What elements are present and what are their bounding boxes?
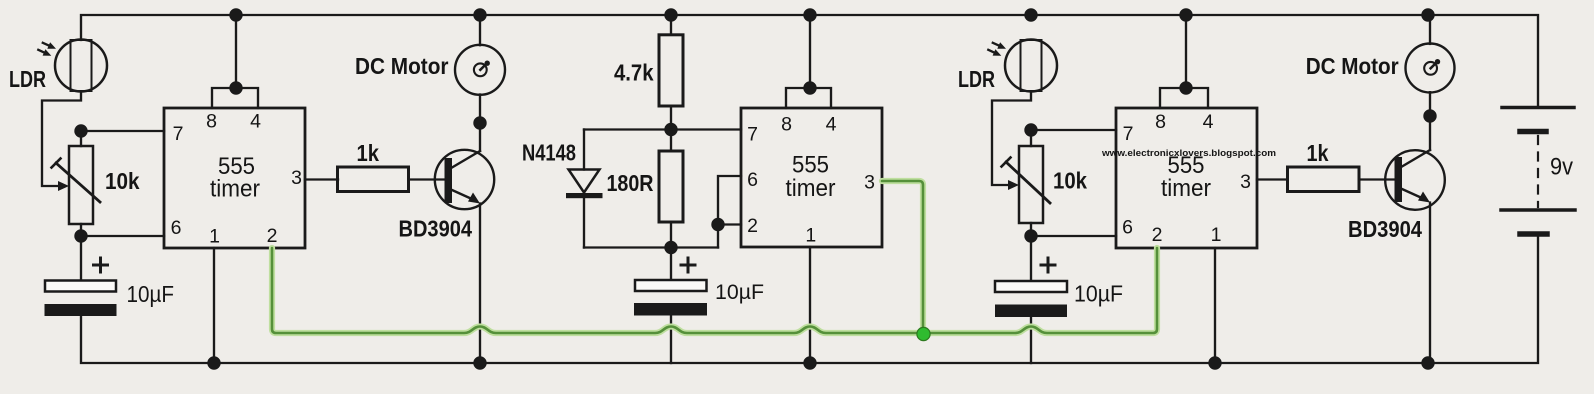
svg-text:3: 3 xyxy=(864,172,875,194)
node B: VR1 bottom / pin6 U1 / C1 xyxy=(74,229,87,242)
capacitor C1 10uF polarized xyxy=(45,258,117,316)
node C: R3/R4/D1/pin7 U2 xyxy=(664,123,677,136)
wire: C2 to ground rail xyxy=(670,315,672,363)
resistor R3 4.7k xyxy=(659,35,683,106)
wire: U2 pin1 to ground rail xyxy=(809,247,811,363)
potentiometer VR2 10k xyxy=(1002,146,1051,223)
svg-text:7: 7 xyxy=(747,124,758,146)
wire: LDR2 bottom to VR2 wiper xyxy=(992,92,1031,186)
label U3 555 timer xyxy=(1161,152,1211,202)
svg-text:4: 4 xyxy=(250,111,261,133)
svg-text:3: 3 xyxy=(291,167,302,189)
node: M1/Q1 connection blob xyxy=(473,116,486,129)
op-amp U2 555 timer box xyxy=(741,108,882,247)
wire: R5 to Q2 base xyxy=(1359,178,1396,180)
wire: U1 pin1 to ground rail xyxy=(213,248,215,363)
svg-text:1: 1 xyxy=(805,225,816,247)
wire: U1 strap to top rail xyxy=(235,15,237,88)
wire: U1 pins 8-4 strap xyxy=(212,88,258,108)
wire: VR2 bottom to node F xyxy=(1030,223,1032,236)
node: top rail junction above LDR2 xyxy=(1024,8,1037,21)
svg-text:10k: 10k xyxy=(105,168,140,194)
wire: top rail to R3 xyxy=(670,15,672,35)
node: top rail junction above U2 xyxy=(803,8,816,21)
op-amp U3 555 timer box xyxy=(1116,108,1257,248)
wire: node C to D1 anode xyxy=(584,128,671,130)
transistor Q2 BD3904 xyxy=(1385,150,1445,210)
svg-text:2: 2 xyxy=(1152,224,1163,246)
node: bottom rail junction pin1 U3 xyxy=(1208,356,1221,369)
node: green junction xyxy=(917,327,930,340)
svg-text:timer: timer xyxy=(786,175,836,202)
wire: node B down to C1 xyxy=(80,236,82,283)
svg-text:1k: 1k xyxy=(1307,140,1329,166)
node A: VR1 top / pin7 U1 xyxy=(74,124,87,137)
node: bottom rail junction pin1 U1 xyxy=(207,356,220,369)
svg-text:7: 7 xyxy=(173,123,184,145)
node E: VR2 top / pin7 U3 xyxy=(1024,123,1037,136)
wire: node F to pin 6 of U3 xyxy=(1031,235,1116,237)
svg-text:4: 4 xyxy=(1203,111,1214,133)
wire: U3 pin1 to ground rail xyxy=(1214,248,1216,363)
node D: R4/D1/C2/pin2 loop xyxy=(664,241,677,254)
wire: node B to pin 6 of U1 xyxy=(81,235,164,237)
node: bottom rail junction Q2 emitter xyxy=(1421,356,1434,369)
svg-text:DC Motor: DC Motor xyxy=(355,53,449,79)
node: strap mid U1 xyxy=(229,81,242,94)
svg-text:3: 3 xyxy=(1240,171,1251,193)
wire: green net pin3 U2 drop xyxy=(882,181,923,333)
resistor R4 180R xyxy=(659,151,683,222)
svg-text:10µF: 10µF xyxy=(715,280,764,304)
svg-text:180R: 180R xyxy=(607,170,654,196)
svg-text:10µF: 10µF xyxy=(1074,281,1123,307)
node: strap mid U3 xyxy=(1179,81,1192,94)
svg-text:8: 8 xyxy=(206,111,217,133)
node: top rail junction above M1 xyxy=(473,8,486,21)
svg-text:4: 4 xyxy=(826,114,837,136)
svg-text:DC Motor: DC Motor xyxy=(1306,53,1399,79)
motor M2 xyxy=(1406,44,1455,93)
wire: M1 to Q1 collector xyxy=(479,95,481,152)
svg-text:BD3904: BD3904 xyxy=(399,215,473,241)
svg-text:www.electronicxlovers.blogspot: www.electronicxlovers.blogspot.com xyxy=(1101,148,1276,159)
svg-text:6: 6 xyxy=(747,169,758,191)
wiper arrowhead VR1 xyxy=(58,181,69,191)
node: top rail junction above U3 xyxy=(1179,8,1192,21)
wire: U3 strap to top rail xyxy=(1185,15,1187,88)
resistor R1 1k xyxy=(338,167,409,192)
wire: bottom ground rail xyxy=(81,237,1538,363)
svg-text:BD3904: BD3904 xyxy=(1348,216,1422,242)
svg-text:10k: 10k xyxy=(1053,168,1087,194)
node F: VR2 bottom / pin6 U3 / C3 xyxy=(1024,229,1037,242)
svg-text:1k: 1k xyxy=(357,140,380,166)
node: top rail junction above U1 xyxy=(229,8,242,21)
wire: LDR1 bottom to VR1 wiper xyxy=(42,92,81,187)
node: M2/Q2 connection blob xyxy=(1423,109,1436,122)
battery BT1 9v xyxy=(1501,108,1575,235)
wiper arrowhead VR2 xyxy=(1008,180,1019,190)
svg-text:6: 6 xyxy=(171,217,182,239)
svg-text:8: 8 xyxy=(781,114,792,136)
wire: pin6 U2 drop xyxy=(718,176,741,248)
wire: node A to VR1 top xyxy=(80,131,82,146)
svg-text:1: 1 xyxy=(209,226,220,248)
wire: green net pin2 U1 to pin2 U3 xyxy=(272,181,1157,341)
svg-text:LDR: LDR xyxy=(9,66,46,92)
op-amp U1 555 timer box xyxy=(164,108,305,248)
svg-text:4.7k: 4.7k xyxy=(614,60,654,86)
wire: R3 bottom through node C to R4 top xyxy=(670,106,672,151)
motor M1 xyxy=(455,45,505,95)
wire: Q2 emitter to ground rail xyxy=(1429,203,1431,364)
svg-text:10µF: 10µF xyxy=(127,281,175,307)
wire: C3 to ground rail xyxy=(1030,317,1032,363)
svg-text:timer: timer xyxy=(210,176,260,203)
wire: top supply rail xyxy=(81,15,1538,107)
wire: node E to VR2 top xyxy=(1030,130,1032,146)
wire: node A to pin 7 of U1 xyxy=(81,130,164,132)
svg-text:8: 8 xyxy=(1155,111,1166,133)
wire: R1 to Q1 base xyxy=(409,178,447,180)
wire: U2 strap to top rail xyxy=(809,15,811,88)
wire: node D down to C2 xyxy=(670,248,672,282)
wire: Q1 emitter to ground rail xyxy=(479,204,481,364)
node: bottom rail junction pin1 U2 xyxy=(803,356,816,369)
svg-text:9v: 9v xyxy=(1550,154,1573,181)
wire: U2 pins 8-4 strap xyxy=(786,88,831,108)
photoresistor LDR2 xyxy=(988,40,1057,92)
potentiometer VR1 10k xyxy=(52,146,101,224)
wire: U1 pin3 to R1 xyxy=(305,178,338,180)
svg-text:1: 1 xyxy=(1211,224,1222,246)
resistor R5 1k xyxy=(1288,167,1360,192)
label U1 555 timer xyxy=(210,153,260,203)
svg-text:LDR: LDR xyxy=(958,66,995,92)
label U2 555 timer xyxy=(786,152,836,203)
node: bottom rail junction Q1 emitter xyxy=(473,356,486,369)
svg-text:N4148: N4148 xyxy=(522,140,576,166)
diode D1 N4148 xyxy=(566,130,603,248)
wire: M2 to Q2 collector xyxy=(1429,92,1431,150)
wire: top rail to M1 xyxy=(479,15,481,45)
wire: node E to pin 7 of U3 xyxy=(1031,129,1116,131)
svg-text:7: 7 xyxy=(1123,123,1134,145)
svg-text:timer: timer xyxy=(1161,175,1211,202)
wire: R4 bottom to node D xyxy=(670,222,672,248)
svg-text:2: 2 xyxy=(747,215,758,237)
capacitor C3 10uF polarized xyxy=(995,258,1067,317)
wire: U3 pin3 to R5 xyxy=(1257,178,1288,180)
node: top rail junction above R3 xyxy=(664,8,677,21)
wire: pin2 U2 stub xyxy=(718,223,741,225)
transistor Q1 BD3904 xyxy=(435,150,494,209)
svg-text:2: 2 xyxy=(267,225,278,247)
wire: node F down to C3 xyxy=(1030,236,1032,280)
svg-text:6: 6 xyxy=(1122,217,1133,239)
wire: D1 cathode to node D to x718 xyxy=(584,246,718,248)
capacitor C2 10uF polarized xyxy=(634,258,707,316)
node: strap mid U2 xyxy=(803,81,816,94)
wire: node C to pin 7 of U2 xyxy=(671,128,741,130)
wire: U3 pins 8-4 strap xyxy=(1160,88,1208,108)
photoresistor LDR1 xyxy=(38,40,107,92)
node: pin2 U2 junction xyxy=(711,218,724,231)
node: top rail junction above M2 xyxy=(1421,8,1434,21)
wire: VR1 bottom to node B xyxy=(80,224,82,236)
wire: top rail to M2 xyxy=(1429,15,1431,44)
